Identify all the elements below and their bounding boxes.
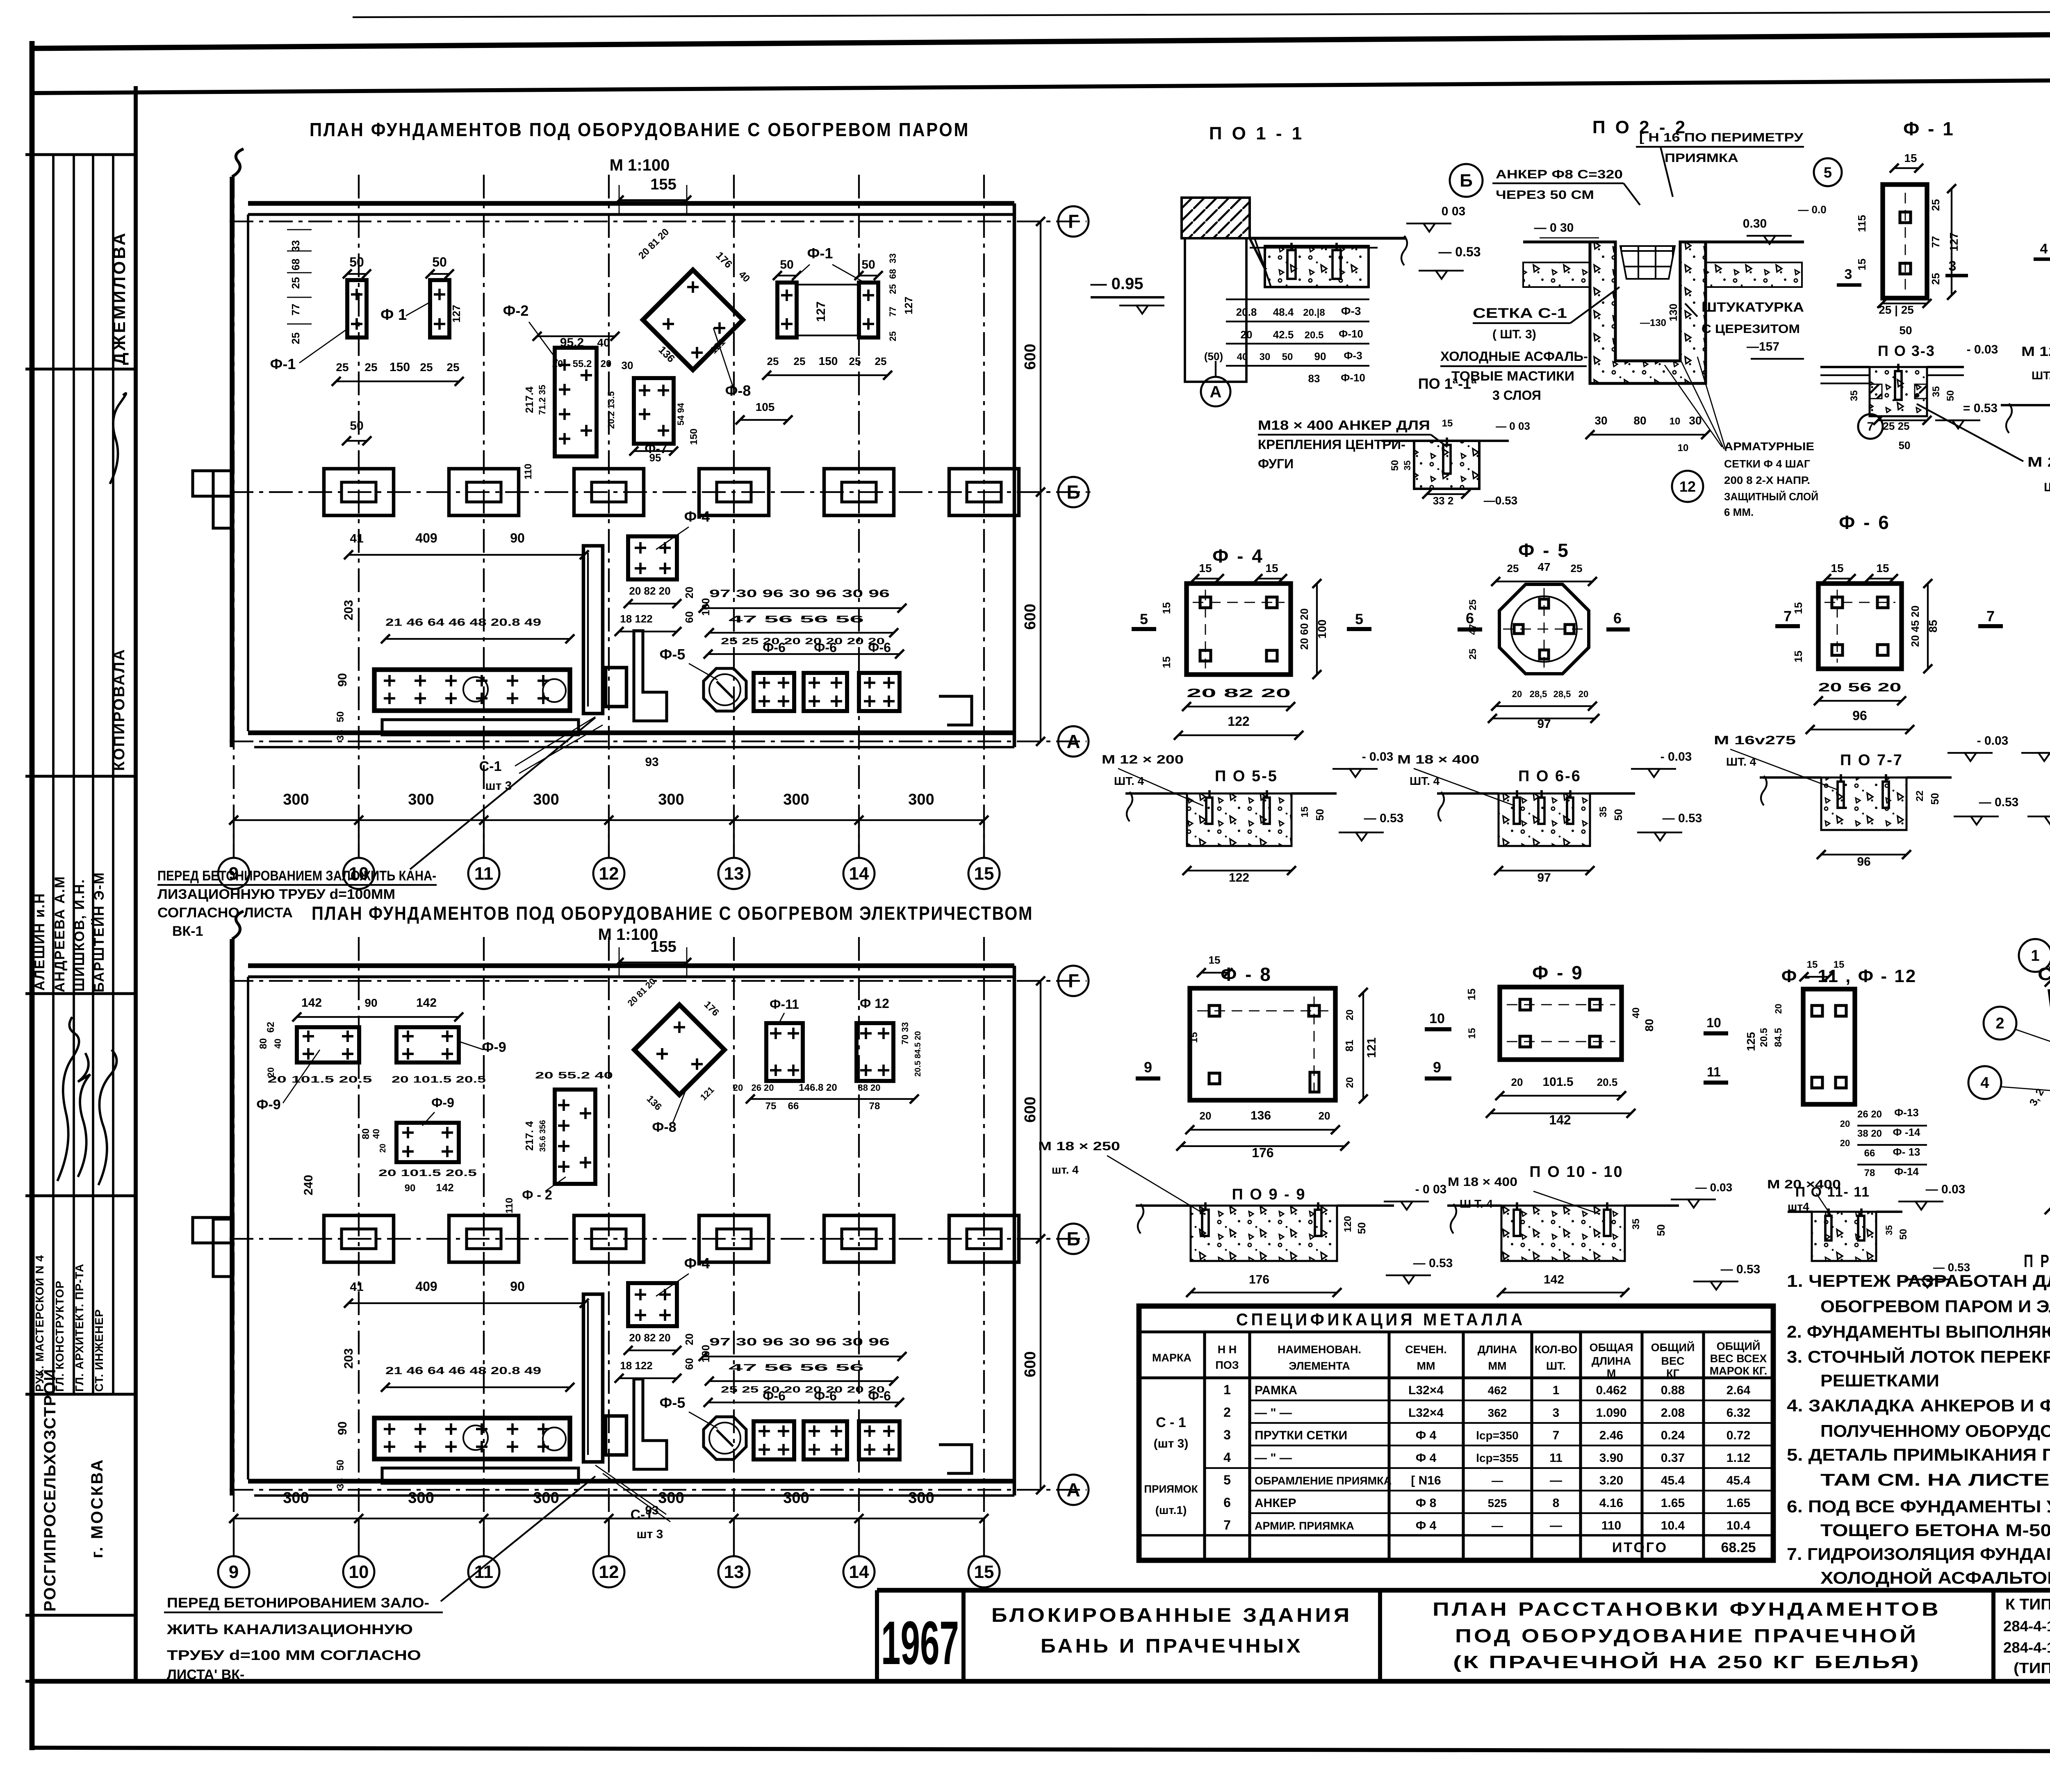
- spec table outer box: [1139, 1306, 1773, 1560]
- svg-text:15: 15: [1467, 1028, 1478, 1039]
- svg-text:1: 1: [2031, 947, 2039, 964]
- svg-text:12: 12: [599, 864, 619, 884]
- svg-text:— 0 30: — 0 30: [1534, 221, 1574, 235]
- svg-text:25: 25: [1929, 199, 1942, 211]
- svg-text:20 101.5 20.5: 20 101.5 20.5: [268, 1074, 372, 1085]
- svg-text:9: 9: [1433, 1059, 1441, 1076]
- svg-text:150: 150: [389, 360, 410, 374]
- section ПО 1-1 pier below: [1185, 238, 1246, 382]
- plan1 grid bubble Б: [1058, 477, 1089, 507]
- svg-text:ВК-1: ВК-1: [172, 923, 203, 939]
- section ПО 1-1 hatched wall: [1182, 198, 1250, 238]
- svg-text:ДЛИНА: ДЛИНА: [1478, 1343, 1517, 1356]
- svg-text:ММ: ММ: [1417, 1360, 1435, 1372]
- svg-text:3.20: 3.20: [1599, 1474, 1623, 1487]
- detail Ф-6 7 plan: [1818, 584, 1902, 669]
- svg-text:ПРИЯМОК: ПРИЯМОК: [1144, 1483, 1198, 1495]
- plan2 small foundation right of slab: [606, 1416, 626, 1455]
- svg-text:- 0.03: - 0.03: [1660, 750, 1692, 764]
- svg-text:20 82 20: 20 82 20: [629, 585, 670, 597]
- svg-text:25: 25: [1571, 562, 1583, 575]
- svg-text:ОБРАМЛЕНИЕ ПРИЯМКА: ОБРАМЛЕНИЕ ПРИЯМКА: [1255, 1475, 1392, 1487]
- section ПО 9-9 floor lines: [1136, 1204, 1191, 1207]
- svg-text:90: 90: [405, 1183, 416, 1194]
- svg-text:409: 409: [415, 1279, 437, 1294]
- svg-text:7: 7: [1986, 608, 1995, 625]
- svg-text:50: 50: [780, 258, 793, 271]
- svg-text:АНКЕР: АНКЕР: [1255, 1496, 1296, 1510]
- svg-text:75: 75: [765, 1101, 777, 1112]
- svg-text:35: 35: [1598, 807, 1609, 818]
- svg-text:Ф-11: Ф-11: [770, 997, 799, 1012]
- svg-text:— 0.03: — 0.03: [1926, 1183, 1966, 1196]
- title block divider projects: [1991, 1590, 1995, 1681]
- svg-text:90: 90: [336, 673, 349, 686]
- svg-text:409: 409: [415, 531, 437, 545]
- bottom-left note underline: [164, 1612, 443, 1613]
- svg-text:217.4: 217.4: [523, 386, 535, 413]
- svg-text:66: 66: [788, 1101, 799, 1112]
- plan1 grid bubble Г: [1058, 206, 1089, 237]
- sidebar row line 4: [25, 992, 136, 995]
- svg-text:18 122: 18 122: [620, 613, 653, 625]
- svg-text:М18 × 400 АНКЕР ДЛЯ: М18 × 400 АНКЕР ДЛЯ: [1258, 418, 1430, 433]
- svg-text:80: 80: [258, 1038, 269, 1049]
- plan2 foundation Ф-8 diamond: [634, 1005, 724, 1095]
- svg-text:- 0.03: - 0.03: [1362, 750, 1394, 764]
- svg-text:90: 90: [510, 1279, 525, 1294]
- svg-text:шт 3: шт 3: [485, 779, 512, 793]
- sidebar row line 5: [25, 1194, 136, 1197]
- section ПО 2-2 mesh basket: [1620, 246, 1675, 279]
- svg-text:12: 12: [599, 1562, 619, 1582]
- plan2 grid axis 13: [733, 937, 735, 1555]
- svg-text:14: 14: [849, 1562, 869, 1582]
- svg-text:20.5: 20.5: [1597, 1076, 1618, 1088]
- svg-text:77: 77: [1929, 236, 1942, 248]
- sidebar signature mark: [110, 393, 126, 484]
- svg-text:142: 142: [301, 996, 322, 1010]
- note before plan2 underline: [157, 884, 437, 886]
- svg-text:3. СТОЧНЫЙ ЛОТОК ПЕРЕКРЫВАЕТ: 3. СТОЧНЫЙ ЛОТОК ПЕРЕКРЫВАЕТСЯ СЪЕМНЫМИ …: [1787, 1347, 2050, 1366]
- svg-text:— 0.0: — 0.0: [1798, 203, 1826, 216]
- svg-text:(шт 3): (шт 3): [1154, 1437, 1189, 1450]
- svg-text:Б: Б: [1066, 1228, 1080, 1249]
- svg-text:10: 10: [1678, 442, 1689, 454]
- svg-text:3: 3: [1223, 1427, 1231, 1442]
- svg-text:6: 6: [1223, 1495, 1231, 1510]
- svg-text:110: 110: [504, 1198, 515, 1214]
- svg-text:600: 600: [1022, 344, 1039, 369]
- svg-text:20 82 20: 20 82 20: [1187, 686, 1291, 700]
- svg-text:М 18 × 400: М 18 × 400: [1397, 753, 1479, 766]
- plan2 grid bubbles 9-15: [233, 1518, 235, 1556]
- svg-text:М 16v275: М 16v275: [1714, 734, 1796, 747]
- svg-text:L32×4: L32×4: [1408, 1384, 1444, 1397]
- svg-text:7: 7: [1553, 1429, 1560, 1442]
- svg-text:шт 3: шт 3: [637, 1528, 663, 1541]
- plan2 foundation Ф-2: [555, 1090, 595, 1184]
- svg-text:50: 50: [1899, 439, 1911, 451]
- svg-text:ММ: ММ: [1488, 1360, 1507, 1372]
- svg-text:А: А: [1066, 731, 1080, 752]
- svg-text:90: 90: [510, 531, 525, 545]
- svg-text:1: 1: [1553, 1384, 1560, 1397]
- svg-text:М 18 × 250: М 18 × 250: [1038, 1140, 1120, 1153]
- svg-text:1.65: 1.65: [1727, 1496, 1750, 1510]
- svg-text:(шт.1): (шт.1): [1155, 1504, 1187, 1516]
- svg-text:ТАМ СМ. НА ЛИСТЕ АСД: ТАМ СМ. НА ЛИСТЕ АСД-4: [1820, 1470, 2050, 1489]
- svg-text:28,5: 28,5: [1530, 689, 1547, 699]
- plan1 foundation Ф-4: [628, 536, 677, 579]
- plan2 grid axis 10: [358, 937, 360, 1555]
- svg-text:7: 7: [1867, 420, 1874, 433]
- svg-text:4: 4: [1223, 1450, 1231, 1465]
- svg-text:50: 50: [335, 711, 346, 723]
- svg-text:П О 6-6: П О 6-6: [1518, 768, 1581, 785]
- svg-text:Ф 8: Ф 8: [1416, 1496, 1437, 1510]
- svg-text:ПОЗ: ПОЗ: [1215, 1359, 1239, 1371]
- svg-text:50: 50: [1929, 793, 1941, 805]
- plan1 top wall: [248, 201, 1014, 205]
- svg-text:50: 50: [1945, 390, 1956, 401]
- svg-text:П О 7-7: П О 7-7: [1840, 752, 1903, 769]
- svg-text:Ф-1: Ф-1: [270, 356, 296, 372]
- svg-text:2.64: 2.64: [1727, 1384, 1751, 1397]
- svg-text:Ф-4: Ф-4: [684, 508, 710, 525]
- svg-text:(ТИПЫ I,II,III) 284-4-18.: (ТИПЫ I,II,III) 284-4-18.: [2014, 1660, 2050, 1676]
- svg-text:20: 20: [1840, 1138, 1850, 1148]
- svg-text:ШИШКОВ, И.Н.: ШИШКОВ, И.Н.: [72, 879, 87, 992]
- svg-text:68.25: 68.25: [1721, 1540, 1756, 1555]
- svg-text:[ Н 16 ПО ПЕРИМЕТРУ: [ Н 16 ПО ПЕРИМЕТРУ: [1639, 131, 1803, 144]
- svg-text:33: 33: [888, 253, 898, 263]
- svg-text:Ф-9: Ф-9: [431, 1095, 454, 1110]
- svg-text:142: 142: [416, 996, 437, 1010]
- svg-text:2.46: 2.46: [1599, 1429, 1623, 1442]
- plan1 grid axis 13: [733, 175, 735, 857]
- section ПО 6-6 floor lines: [1437, 792, 1499, 795]
- svg-text:Ф 4: Ф 4: [1416, 1451, 1437, 1465]
- svg-text:3 СЛОЯ: 3 СЛОЯ: [1492, 388, 1541, 403]
- svg-text:21 46 64 46 48 20.8 49: 21 46 64 46 48 20.8 49: [385, 1365, 541, 1377]
- svg-text:ЗАЩИТНЫЙ СЛОЙ: ЗАЩИТНЫЙ СЛОЙ: [1724, 490, 1818, 503]
- svg-text:50: 50: [1389, 460, 1401, 471]
- svg-text:Ф-9: Ф-9: [256, 1097, 280, 1113]
- svg-text:Ф-5: Ф-5: [660, 646, 686, 663]
- plan2 slab opening circle 2: [543, 1427, 566, 1450]
- svg-text:20 55.2 40: 20 55.2 40: [535, 1070, 613, 1081]
- plan1 slab opening circle 2: [543, 679, 566, 702]
- svg-text:ДЖЕМИЛОВА: ДЖЕМИЛОВА: [109, 231, 129, 365]
- plan1 right wall: [1013, 203, 1016, 747]
- svg-text:80: 80: [360, 1129, 371, 1140]
- svg-text:20: 20: [1512, 689, 1522, 699]
- section ПО 10-10 concrete: [1501, 1206, 1625, 1261]
- plan2 foundation Ф-9 c: [396, 1123, 459, 1162]
- svg-text:300: 300: [408, 791, 434, 808]
- svg-text:20 56 20: 20 56 20: [1818, 681, 1902, 694]
- svg-text:(К ПРАЧЕЧНОЙ НА 250 КГ БЕЛ: (К ПРАЧЕЧНОЙ НА 250 КГ БЕЛЬЯ): [1453, 1651, 1920, 1672]
- svg-text:33: 33: [289, 240, 302, 252]
- svg-text:ПЛАН РАССТАНОВКИ ФУНДАМЕНТОВ: ПЛАН РАССТАНОВКИ ФУНДАМЕНТОВ: [1433, 1598, 1941, 1620]
- plan1 grid axis 12: [608, 175, 610, 857]
- svg-text:ГЛ. АРХИТЕКТ. ПР-ТА: ГЛ. АРХИТЕКТ. ПР-ТА: [73, 1263, 86, 1392]
- plan2 left pier on row Б: [193, 1217, 232, 1243]
- svg-text:80: 80: [1633, 414, 1646, 427]
- scan paper edge top: [353, 11, 2050, 17]
- svg-text:142: 142: [1544, 1273, 1564, 1286]
- svg-text:600: 600: [1022, 604, 1039, 629]
- svg-text:142: 142: [436, 1181, 453, 1194]
- svg-text:25: 25: [289, 333, 302, 344]
- svg-text:ПЕРЕД БЕТОНИРОВАНИЕМ ЗАЛОЖИТЬ: ПЕРЕД БЕТОНИРОВАНИЕМ ЗАЛОЖИТЬ КАНА-: [157, 868, 436, 884]
- svg-text:— 0.53: — 0.53: [1979, 796, 2019, 809]
- svg-text:48.4: 48.4: [1273, 306, 1294, 318]
- sidebar signature squiggle 2: [78, 1053, 90, 1177]
- plan2 left wall break squiggle: [232, 911, 244, 939]
- svg-text:ХОЛОДНЫЕ АСФАЛЬ-: ХОЛОДНЫЕ АСФАЛЬ-: [1440, 349, 1588, 364]
- plan2 foundation Ф-12: [856, 1023, 893, 1081]
- svg-text:25 25 20 20 20 20 20 20: 25 25 20 20 20 20 20 20: [721, 1384, 885, 1395]
- svg-text:Ф 12: Ф 12: [860, 996, 889, 1011]
- svg-text:90: 90: [364, 996, 377, 1009]
- outer border frame left: [30, 41, 35, 1750]
- detail Ф-9 plan: [1500, 987, 1622, 1060]
- plan2 channel strip: [583, 1294, 603, 1462]
- svg-text:20: 20: [1344, 1077, 1355, 1088]
- svg-text:6.32: 6.32: [1727, 1406, 1750, 1420]
- svg-text:240: 240: [302, 1175, 315, 1195]
- detail Ф-5 octagon plan: [1499, 584, 1589, 674]
- plan1 column footings row Б: [324, 469, 394, 515]
- svg-text:С-1: С-1: [479, 759, 502, 774]
- svg-text:25: 25: [420, 361, 433, 374]
- svg-text:К ТИПОВЫМ ПРОЕКТАМ: К ТИПОВЫМ ПРОЕКТАМ: [2005, 1596, 2050, 1613]
- svg-text:СПЕЦИФИКАЦИЯ МЕТАЛЛА: СПЕЦИФИКАЦИЯ МЕТАЛЛА: [1236, 1310, 1526, 1329]
- plan2 right 600 dimensions: [1040, 981, 1041, 1239]
- svg-text:8: 8: [1553, 1496, 1560, 1510]
- plan1 left wall break squiggle: [232, 149, 244, 177]
- svg-text:Ф-8: Ф-8: [725, 382, 751, 399]
- svg-text:20.5: 20.5: [1758, 1028, 1770, 1047]
- section ПО 2-2 axis bubble Б: [1450, 164, 1483, 197]
- svg-text:— 0 03: — 0 03: [1496, 420, 1530, 432]
- svg-text:ПОД ОБОРУДОВАНИЕ ПРАЧЕЧНОЙ: ПОД ОБОРУДОВАНИЕ ПРАЧЕЧНОЙ: [1455, 1625, 1918, 1646]
- svg-text:25: 25: [364, 361, 377, 374]
- svg-text:Ф- 13: Ф- 13: [1893, 1146, 1920, 1158]
- svg-text:— 0.03: — 0.03: [1695, 1181, 1732, 1194]
- detail ПО 1а-1а concrete block: [1414, 441, 1479, 489]
- svg-text:130: 130: [1667, 303, 1679, 321]
- svg-text:0.24: 0.24: [1661, 1429, 1685, 1442]
- svg-text:L32×4: L32×4: [1408, 1406, 1444, 1420]
- svg-text:20 101.5 20.5: 20 101.5 20.5: [392, 1074, 486, 1085]
- detail Ф-8 plan: [1190, 988, 1335, 1100]
- svg-text:50: 50: [432, 255, 447, 269]
- plan1 left wall: [230, 177, 234, 747]
- svg-text:ОБЩИЙ: ОБЩИЙ: [1651, 1341, 1695, 1354]
- svg-text:20: 20: [1319, 1110, 1330, 1122]
- svg-text:— 0.53: — 0.53: [1933, 1261, 1970, 1274]
- svg-text:142: 142: [1549, 1113, 1571, 1127]
- svg-text:ТОЩЕГО БЕТОНА М-50 , ТОЛЩИ: ТОЩЕГО БЕТОНА М-50 , ТОЛЩИНОЙ 10СМ.: [1820, 1520, 2050, 1540]
- svg-text:80: 80: [1643, 1019, 1656, 1031]
- svg-text:110: 110: [523, 464, 534, 480]
- svg-text:90: 90: [1314, 350, 1326, 363]
- svg-text:45.4: 45.4: [1661, 1474, 1685, 1487]
- svg-text:20 60 20: 20 60 20: [1298, 608, 1310, 650]
- svg-text:АРМАТУРНЫЕ: АРМАТУРНЫЕ: [1724, 440, 1814, 453]
- plan1 right 600 dimensions: [1040, 221, 1041, 492]
- svg-text:АНКЕР Ф8 С=320: АНКЕР Ф8 С=320: [1496, 168, 1623, 181]
- plan1 foundations Ф-6 group: [754, 673, 794, 711]
- plan1 grid axis А: [230, 741, 1086, 742]
- svg-text:lср=350: lср=350: [1476, 1429, 1519, 1442]
- svg-text:С ЦЕРЕЗИТОМ: С ЦЕРЕЗИТОМ: [1701, 322, 1800, 336]
- plan2 grid axis 9: [233, 937, 235, 1555]
- svg-text:Ш Т. 4: Ш Т. 4: [1460, 1197, 1493, 1210]
- svg-text:Ф-5: Ф-5: [660, 1394, 686, 1411]
- svg-text:81: 81: [1343, 1040, 1355, 1052]
- svg-text:— 0.53: — 0.53: [1364, 812, 1404, 825]
- svg-text:ОБЩАЯ: ОБЩАЯ: [1590, 1341, 1633, 1354]
- svg-text:БАНЬ И ПРАЧЕЧНЫХ: БАНЬ И ПРАЧЕЧНЫХ: [1041, 1635, 1303, 1657]
- sidebar bottom line: [25, 1680, 136, 1683]
- section ПО 2-2 trench: [1590, 242, 1706, 383]
- svg-text:ШТ. 6: ШТ. 6: [2032, 369, 2050, 382]
- svg-text:АЛЕШИН и.Н: АЛЕШИН и.Н: [32, 893, 48, 991]
- svg-text:— 0.53: — 0.53: [1413, 1256, 1453, 1270]
- svg-text:3: 3: [1949, 258, 1957, 274]
- svg-text:12: 12: [1679, 478, 1696, 495]
- plan1 channel strip: [583, 546, 603, 714]
- section ПО 3-3 drawing: [1820, 366, 1870, 368]
- mesh bubbles left: [2019, 939, 2050, 972]
- svg-text:15: 15: [1465, 989, 1478, 1001]
- svg-text:15: 15: [1299, 807, 1310, 818]
- svg-text:15: 15: [1199, 562, 1212, 575]
- section ПО 1-1 dim table rows: [1204, 299, 1369, 385]
- mesh trapezoid: [2049, 991, 2050, 1151]
- plan2 left wall: [230, 939, 234, 1496]
- svg-text:10: 10: [1429, 1011, 1445, 1026]
- plan2 left wall jog: [213, 1219, 232, 1277]
- svg-text:10: 10: [1706, 1015, 1721, 1030]
- plan1 left pier on row Б: [193, 471, 232, 496]
- detail Ф-1 plan: [1883, 185, 1927, 298]
- svg-text:ЧЕРЕЗ 50 СМ: ЧЕРЕЗ 50 СМ: [1496, 188, 1594, 202]
- svg-text:15: 15: [974, 864, 994, 884]
- svg-text:шт4: шт4: [1788, 1200, 1809, 1213]
- plan1 grid axis 9: [233, 175, 235, 857]
- svg-text:97 30 96 30 96 30 96: 97 30 96 30 96 30 96: [709, 587, 890, 600]
- svg-text:101.5: 101.5: [1542, 1075, 1573, 1089]
- svg-text:20.|8: 20.|8: [1303, 307, 1325, 318]
- plan1 top dim 155: [619, 199, 687, 201]
- plan1 corner wall piece: [634, 631, 667, 721]
- svg-text:50: 50: [349, 255, 364, 269]
- svg-text:122: 122: [1229, 871, 1249, 885]
- plan2 grid axis 15: [983, 937, 985, 1555]
- svg-text:ТРУБУ d=100 ММ СОГЛАСНО: ТРУБУ d=100 ММ СОГЛАСНО: [167, 1648, 421, 1663]
- svg-text:300: 300: [283, 791, 309, 808]
- svg-text:20: 20: [1773, 1004, 1783, 1014]
- sidebar row line 6: [25, 1393, 136, 1395]
- svg-text:93: 93: [645, 755, 658, 769]
- svg-text:40: 40: [1237, 351, 1248, 363]
- svg-text:300: 300: [783, 791, 809, 808]
- svg-text:50: 50: [335, 1460, 346, 1471]
- svg-text:40: 40: [1631, 1008, 1642, 1019]
- plan2 bottom wall: [248, 1479, 1014, 1483]
- svg-text:— " —: — " —: [1255, 1406, 1292, 1420]
- svg-text:ПЛАН ФУНДАМЕНТОВ ПОД ОБОР: ПЛАН ФУНДАМЕНТОВ ПОД ОБОРУДОВАНИЕ С ОБОГ…: [312, 903, 1033, 924]
- svg-text:10.4: 10.4: [1661, 1519, 1685, 1532]
- svg-text:ШТ. 2: ШТ. 2: [2044, 481, 2050, 494]
- svg-text:35: 35: [1631, 1219, 1642, 1230]
- section ПО 3-3 bubble 7: [1858, 414, 1883, 439]
- plan1 grid bubble А: [1058, 726, 1089, 757]
- title block divider year-right: [961, 1590, 966, 1681]
- svg-text:78: 78: [1864, 1167, 1875, 1179]
- outer border frame top (slightly skewed like scan): [32, 32, 2050, 48]
- svg-text:СТ. ИНЖЕНЕР: СТ. ИНЖЕНЕР: [93, 1309, 105, 1392]
- svg-text:26 20: 26 20: [1857, 1109, 1882, 1120]
- plan1 Б axis right extension: [1086, 492, 1091, 493]
- svg-text:20: 20: [378, 1144, 387, 1153]
- plan1 slab opening circle 1: [463, 677, 488, 702]
- svg-text:50: 50: [1612, 809, 1624, 821]
- plan1 foundation Ф-1 left pair: [347, 280, 367, 337]
- svg-text:25: 25: [336, 361, 348, 374]
- svg-text:—130: —130: [1640, 317, 1666, 328]
- svg-text:5. ДЕТАЛЬ ПРИМЫКАНИЯ ПОЛОВ: 5. ДЕТАЛЬ ПРИМЫКАНИЯ ПОЛОВ НА ГРУНТАХ К …: [1787, 1445, 2050, 1464]
- plan1 long foundation slab: [374, 670, 570, 711]
- svg-text:Ф 4: Ф 4: [1416, 1429, 1437, 1442]
- plan1 grid axis 11: [483, 175, 485, 857]
- svg-text:97: 97: [1537, 871, 1551, 885]
- plan1 drain trench below slab: [382, 720, 579, 735]
- svg-text:1.12: 1.12: [1727, 1451, 1750, 1465]
- svg-text:ЛИЗАЦИОННУЮ ТРУБУ d=100ММ: ЛИЗАЦИОННУЮ ТРУБУ d=100ММ: [157, 887, 395, 902]
- svg-text:3: 3: [1553, 1406, 1560, 1420]
- svg-text:0 03: 0 03: [1442, 205, 1465, 218]
- svg-text:6. ПОД ВСЕ ФУНДАМЕНТЫ УСТРА: 6. ПОД ВСЕ ФУНДАМЕНТЫ УСТРАИВАЕТСЯ ПОДГО…: [1787, 1497, 2050, 1516]
- svg-text:13: 13: [724, 864, 744, 884]
- svg-text:ШТ. 4: ШТ. 4: [1114, 775, 1144, 787]
- svg-text:71.2 35: 71.2 35: [537, 385, 547, 415]
- svg-text:95: 95: [649, 451, 661, 464]
- svg-text:—: —: [1492, 1474, 1503, 1487]
- svg-text:НАИМЕНОВАН.: НАИМЕНОВАН.: [1278, 1343, 1361, 1356]
- svg-text:М 12 × 200: М 12 × 200: [1102, 753, 1184, 766]
- plan1 foundation Ф-1 right pair: [777, 283, 797, 337]
- svg-text:54 94: 54 94: [676, 403, 686, 426]
- plan2 grid axis 11: [483, 937, 485, 1555]
- svg-text:Ф 4: Ф 4: [1416, 1519, 1437, 1532]
- spec table title underline: [1139, 1330, 1773, 1333]
- svg-text:П О 1 - 1: П О 1 - 1: [1209, 123, 1304, 144]
- svg-text:10.4: 10.4: [1727, 1519, 1751, 1532]
- plan2 foundation Ф-4: [628, 1283, 677, 1326]
- svg-text:М: М: [1607, 1367, 1616, 1379]
- svg-text:5: 5: [1223, 1473, 1231, 1487]
- plan1 small foundation right of slab: [606, 668, 626, 707]
- svg-text:127: 127: [450, 305, 462, 322]
- svg-text:300: 300: [783, 1489, 809, 1507]
- svg-text:78: 78: [869, 1101, 880, 1112]
